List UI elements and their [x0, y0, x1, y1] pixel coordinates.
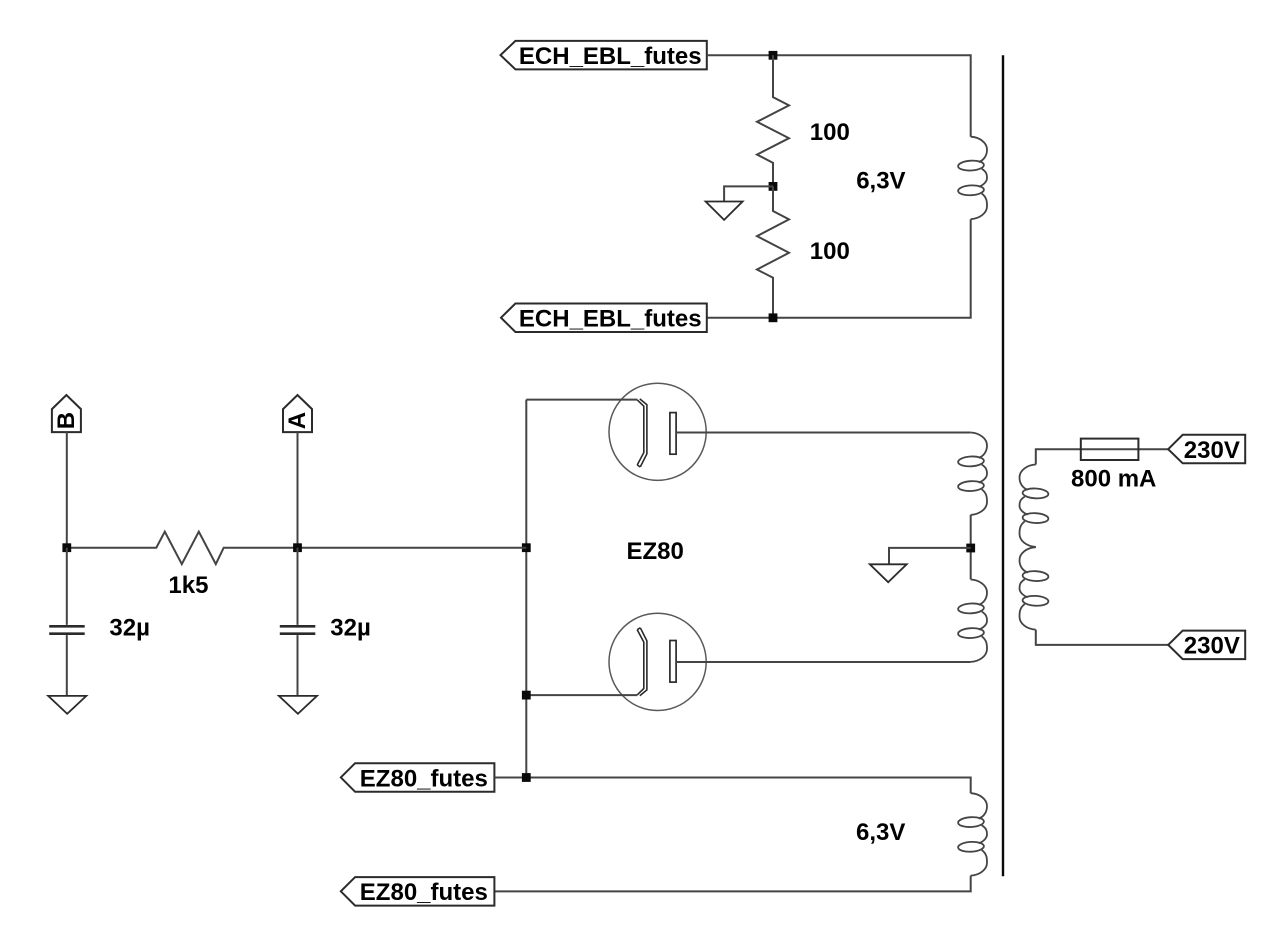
svg-text:6,3V: 6,3V [856, 819, 905, 846]
net flag ECH_EBL_futes (top) [501, 41, 707, 70]
ground (resistor divider midpoint) [706, 186, 773, 220]
U1 cathode [670, 413, 676, 455]
svg-text:B: B [53, 412, 80, 429]
net flag EZ80_futes (top) [341, 763, 495, 792]
svg-text:ECH_EBL_futes: ECH_EBL_futes [519, 306, 702, 333]
U1 cathode wire [676, 432, 971, 434]
svg-text:EZ80_futes: EZ80_futes [360, 879, 488, 906]
resistor R1 100 (upper) [757, 55, 789, 186]
U2 anode wire [526, 694, 637, 696]
ground (C2) [279, 696, 317, 714]
U2 cathode [670, 641, 676, 683]
junction top ECH node [769, 51, 778, 60]
ground (C1) [48, 696, 86, 714]
inductor L1 6.3V ECH winding [971, 137, 987, 219]
svg-text:A: A [284, 412, 311, 429]
U1 anode plate [637, 399, 647, 467]
wire primary bottom corner to flag [1036, 630, 1168, 645]
net flag 230V (top) [1168, 435, 1245, 464]
wire futes top to winding [494, 778, 970, 794]
wire bottom ECH node to winding bottom [707, 219, 971, 318]
wire node to 6.3V winding top [773, 55, 971, 136]
resistor R3 1k5 [67, 532, 298, 565]
U2 cathode wire [676, 661, 971, 663]
wire through fuse to flag [1081, 448, 1168, 450]
net flag EZ80_futes (bottom) [341, 877, 495, 906]
junction futes / anode bus [522, 773, 531, 782]
capacitor C1 32u [49, 548, 84, 696]
svg-text:ECH_EBL_futes: ECH_EBL_futes [519, 43, 702, 70]
svg-text:230V: 230V [1184, 633, 1240, 660]
U2 anode plate [637, 628, 647, 696]
ground (center tap) [870, 548, 971, 582]
U1 anode wire [526, 399, 637, 401]
capacitor C2 32u [280, 548, 316, 696]
svg-text:32µ: 32µ [330, 614, 371, 641]
svg-text:100: 100 [810, 238, 850, 265]
inductor HV secondary upper half [971, 433, 987, 515]
junction bottom ECH node [769, 313, 778, 322]
tube U1 EZ80 (upper diode) envelope [609, 383, 706, 480]
net flag A [283, 395, 312, 432]
junction center tap [966, 544, 975, 553]
inductor primary lower half [1020, 547, 1036, 629]
svg-text:EZ80_futes: EZ80_futes [360, 765, 488, 792]
wire winding bottom to futes bottom flag [494, 876, 970, 892]
transformer core line [1002, 55, 1004, 876]
wire primary top corner to fuse [1036, 449, 1081, 464]
svg-text:32µ: 32µ [109, 614, 150, 641]
svg-text:230V: 230V [1184, 437, 1240, 464]
net flag ECH_EBL_futes (bottom) [501, 304, 707, 333]
fuse F1 body [1081, 439, 1139, 460]
wire B flag stem [66, 432, 68, 548]
svg-text:EZ80: EZ80 [627, 538, 684, 565]
inductor L4 6.3V EZ80 winding [971, 793, 987, 875]
wire top flag to node [707, 54, 773, 56]
net flag B [52, 395, 81, 432]
tube U2 EZ80 (lower diode) envelope [609, 613, 706, 710]
wire A flag stem [297, 432, 299, 548]
junction rail A [293, 543, 302, 552]
junction anode bus / rail [522, 543, 531, 552]
svg-text:1k5: 1k5 [168, 572, 208, 599]
inductor HV secondary lower half [971, 580, 987, 662]
resistor R2 100 (lower) [757, 186, 789, 317]
junction resistor midpoint [769, 182, 778, 191]
net flag 230V (bottom) [1168, 631, 1245, 660]
wire HV center tap vertical [970, 515, 972, 580]
inductor primary upper half [1020, 465, 1036, 547]
svg-text:6,3V: 6,3V [856, 167, 905, 194]
junction rail B [62, 543, 71, 552]
svg-text:800 mA: 800 mA [1071, 466, 1156, 493]
main vertical anode bus wire [525, 400, 527, 778]
junction anode bus / U2 anode [522, 691, 531, 700]
wire rail A to anode bus [298, 547, 527, 549]
svg-text:100: 100 [810, 119, 850, 146]
